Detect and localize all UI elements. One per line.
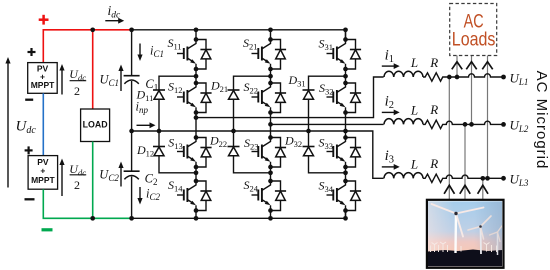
wind farm photo bbox=[427, 200, 504, 268]
transistor S31 bbox=[327, 40, 362, 70]
svg-text:2: 2 bbox=[74, 84, 80, 98]
wire: dc-link rail middle bbox=[131, 81, 133, 171]
transistor S32 bbox=[327, 83, 362, 113]
transistor S13 bbox=[177, 138, 212, 168]
svg-text:R: R bbox=[429, 156, 438, 171]
arrow iC2 bbox=[137, 187, 142, 205]
svg-text:L: L bbox=[410, 55, 418, 70]
node leg 3 junctions bbox=[343, 27, 348, 220]
PV+MPPT box 2 bbox=[28, 156, 57, 190]
node dc- bbox=[129, 216, 134, 221]
wire: leg 2 vertical bbox=[270, 30, 272, 219]
svg-text:MPPT: MPPT bbox=[31, 80, 55, 90]
wire: AC loads feeder c bbox=[487, 56, 489, 179]
wire: red positive dc rail bbox=[43, 30, 131, 63]
LOAD box bbox=[81, 109, 110, 142]
capacitor C2 bbox=[124, 171, 140, 179]
svg-text:R: R bbox=[429, 102, 438, 117]
svg-text:2: 2 bbox=[74, 178, 80, 192]
arrow iC1 bbox=[137, 44, 142, 62]
PV+MPPT box 1 bbox=[28, 63, 58, 94]
wire: blue link PV1 to PV2 bbox=[42, 93, 44, 155]
wire: clamp rail leg 1 bbox=[159, 76, 196, 173]
minus sign PV2 bbox=[25, 198, 35, 200]
svg-text:+: + bbox=[40, 166, 45, 176]
arrow AC loads feeder b bbox=[466, 62, 476, 70]
plus sign dc bus (red) bbox=[39, 15, 49, 25]
plus sign PV2 bbox=[25, 146, 33, 154]
label Udc/2 lower fraction bbox=[69, 162, 86, 192]
arrow UC2 bbox=[118, 162, 123, 187]
node leg1 output tap bbox=[194, 115, 199, 120]
node leg3 output tap bbox=[343, 129, 348, 134]
svg-text:AC Microgrid: AC Microgrid bbox=[533, 71, 550, 170]
wire: top dc bus bbox=[132, 30, 346, 40]
inductor L phase 1 bbox=[384, 71, 423, 77]
arrow AC loads feeder a bbox=[452, 62, 462, 70]
arrow Udc/2 upper bbox=[59, 64, 64, 95]
clamping diode D31 bbox=[303, 90, 315, 99]
wire: clamp rail leg 3 bbox=[309, 76, 346, 173]
Udc arrow bbox=[5, 57, 10, 188]
clamping diode D12 bbox=[153, 147, 165, 156]
wire: leg 1 vertical bbox=[195, 30, 197, 219]
resistor R phase 3 bbox=[423, 174, 506, 182]
arrow idc bbox=[105, 18, 124, 24]
transistor S22 bbox=[252, 83, 287, 113]
node leg2 output tap bbox=[268, 122, 273, 127]
wire: bottom dc bus bbox=[132, 211, 346, 219]
arrow wind feeder c bbox=[478, 185, 488, 194]
label Udc/2 upper fraction bbox=[69, 67, 86, 98]
wire: leg 3 vertical bbox=[345, 30, 347, 219]
transistor S14 bbox=[177, 181, 212, 211]
node leg 1 junctions bbox=[194, 27, 199, 220]
node junctions phase 3 bbox=[480, 176, 505, 181]
arrow Udc/2 lower bbox=[59, 159, 64, 197]
transistor S34 bbox=[327, 181, 362, 211]
arrow UC1 bbox=[118, 65, 123, 92]
wire: load branch bottom (green) bbox=[92, 142, 94, 219]
transistor S23 bbox=[252, 138, 287, 168]
arrow i1 bbox=[382, 63, 400, 69]
wire: green negative dc rail bbox=[43, 189, 131, 218]
node junctions phase 1 bbox=[447, 75, 506, 80]
resistor R phase 2 bbox=[423, 120, 506, 128]
inductor L phase 2 bbox=[384, 119, 423, 125]
capacitor C1 bbox=[124, 76, 140, 84]
wire: AC loads feeder b bbox=[471, 56, 473, 125]
arrow wind feeder b bbox=[460, 185, 470, 194]
wire: neutral rail / leg3 output bbox=[132, 131, 384, 178]
arrow i2 bbox=[382, 110, 400, 116]
node load bottom bbox=[90, 216, 95, 221]
transistor S33 bbox=[327, 138, 362, 168]
transistor S24 bbox=[252, 181, 287, 211]
clamping diode D32 bbox=[303, 147, 315, 156]
transistor S21 bbox=[252, 40, 287, 70]
node dc+ bbox=[129, 27, 134, 32]
arrow AC loads feeder c bbox=[482, 62, 492, 70]
wire: clamp rail leg 2 bbox=[234, 76, 271, 173]
svg-text:L: L bbox=[410, 157, 418, 172]
node leg 2 junctions bbox=[268, 27, 273, 220]
wire: leg1 output bbox=[196, 77, 384, 118]
node junctions phase 2 bbox=[463, 122, 506, 127]
plus sign PV1 bbox=[28, 48, 36, 56]
wire: AC loads feeder a bbox=[456, 56, 458, 78]
resistor R phase 1 bbox=[423, 73, 506, 81]
wire: wind feeder c bbox=[482, 178, 484, 200]
wire: load branch top (red) bbox=[92, 30, 94, 109]
inductor L phase 3 bbox=[384, 173, 423, 179]
arrow wind feeder a bbox=[444, 185, 454, 194]
wire: wind feeder a bbox=[448, 77, 450, 200]
transistor S11 bbox=[177, 40, 212, 70]
wire: dc-link rail lower bbox=[131, 177, 133, 219]
wire: dc-link rail upper bbox=[131, 30, 133, 76]
svg-text:L: L bbox=[410, 103, 418, 118]
clamping diode D21 bbox=[228, 90, 240, 99]
node neutral-clamp junctions bbox=[157, 129, 311, 134]
svg-text:Loads: Loads bbox=[452, 29, 496, 50]
node load top bbox=[90, 27, 95, 32]
wire: wind feeder b bbox=[464, 124, 466, 199]
transistor S12 bbox=[177, 83, 212, 113]
clamping diode D22 bbox=[228, 147, 240, 156]
svg-text:R: R bbox=[429, 55, 438, 70]
AC Loads box bbox=[450, 4, 497, 56]
arrow inp bbox=[137, 122, 156, 128]
wire: leg2 output bbox=[271, 123, 384, 125]
minus sign dc bus (green) bbox=[42, 228, 53, 231]
arrow i3 bbox=[382, 164, 400, 170]
node neutral point bbox=[129, 129, 134, 134]
minus sign PV1 bbox=[25, 99, 33, 101]
svg-text:LOAD: LOAD bbox=[83, 119, 108, 129]
svg-text:MPPT: MPPT bbox=[31, 175, 55, 185]
clamping diode D11 bbox=[153, 90, 165, 99]
